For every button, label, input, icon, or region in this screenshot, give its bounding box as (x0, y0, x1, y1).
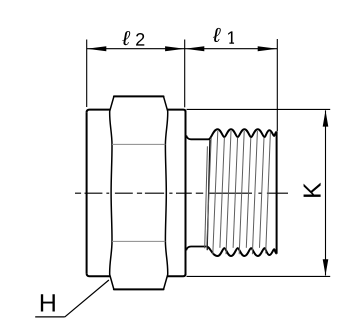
K arrow top (323, 110, 329, 126)
K reference line bottom (187, 275, 331, 277)
H leader line (65, 280, 109, 317)
thread root lines (207, 131, 271, 254)
hex front face top edge (114, 95, 164, 97)
hex face left boundary (bevel+arc+edge) (110, 96, 114, 289)
hex body left edge (86, 112, 88, 273)
hex front face bottom edge (114, 288, 164, 290)
K reference line top (187, 108, 331, 110)
extension line middle (l2/l1) (184, 40, 186, 108)
hex silhouette top edge left segment (87, 110, 110, 113)
dimension line l2 (87, 48, 185, 50)
centerline axis (75, 192, 288, 194)
label K (rotated) (304, 183, 321, 197)
hex facet line top (112, 143, 165, 145)
arrow l1 left (185, 46, 205, 51)
hex face right boundary (bevel+arc+edge) (164, 96, 168, 289)
arrow l1 right (258, 46, 278, 51)
label l2 script ell (122, 31, 131, 45)
extension line left (l2) (86, 40, 88, 108)
thread crest wave top (209, 129, 277, 139)
label H (41, 294, 55, 311)
label l1 script ell (212, 28, 221, 42)
thread start line B (205, 146, 208, 248)
H underline (35, 316, 65, 318)
arrow l2 right (165, 46, 185, 51)
hex silhouette bottom edge left segment (87, 273, 110, 276)
hex silhouette bottom edge right segment (168, 274, 186, 276)
thread end face (276, 132, 278, 254)
dimension line l1 (185, 48, 278, 50)
neck bottom (186, 247, 206, 251)
label l2 digit 2 (136, 33, 144, 46)
arrow l2 left (87, 46, 107, 51)
K dimension line (325, 110, 327, 275)
hex facet line bottom (112, 240, 165, 242)
hex silhouette top edge right segment (168, 110, 186, 112)
neck top (186, 136, 208, 140)
hex end face (185, 111, 187, 275)
extension line right (l1) (276, 39, 278, 131)
K arrow bottom (323, 259, 329, 275)
thread crest wave bottom (207, 247, 277, 257)
label l1 digit 1 (228, 31, 234, 43)
thread start line A (207, 140, 210, 250)
